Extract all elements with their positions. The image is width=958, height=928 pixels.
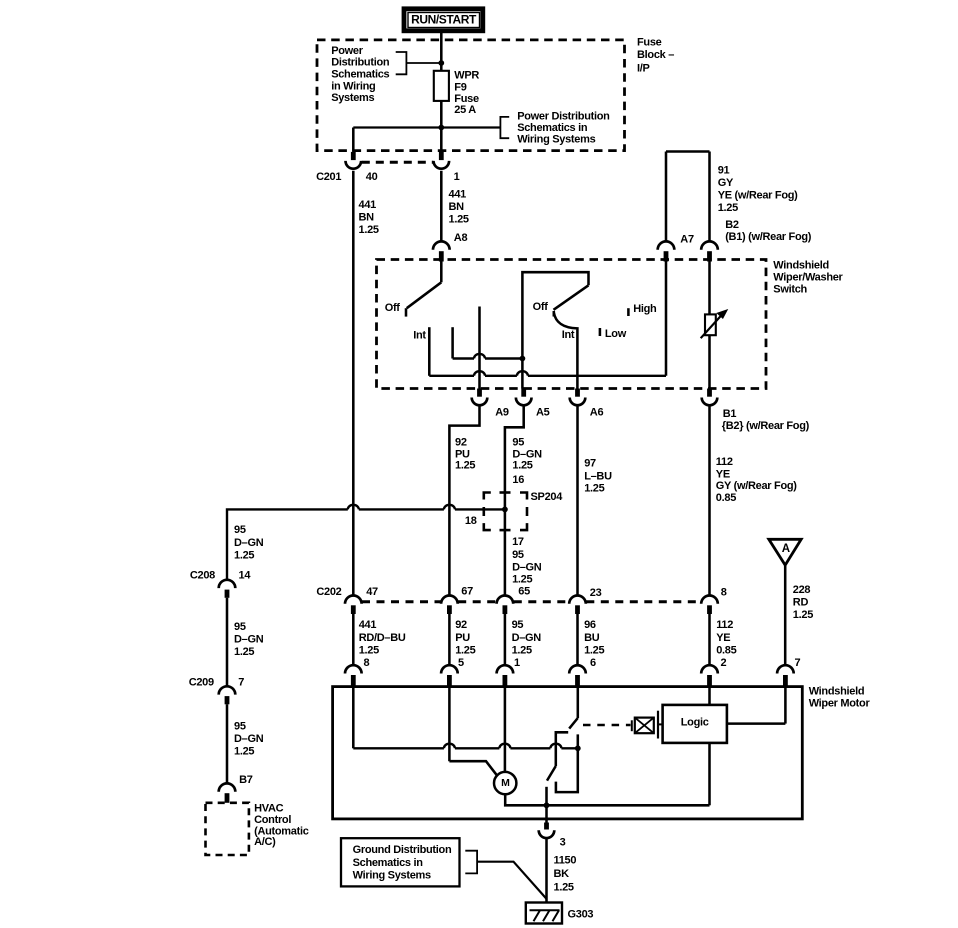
- svg-text:Off: Off: [533, 301, 549, 313]
- svg-text:D–GN: D–GN: [512, 562, 542, 574]
- svg-text:M: M: [501, 777, 510, 789]
- svg-text:1: 1: [454, 171, 460, 183]
- svg-text:1.25: 1.25: [234, 646, 254, 658]
- svg-text:441: 441: [449, 189, 467, 201]
- svg-text:1.25: 1.25: [718, 202, 738, 214]
- svg-text:C209: C209: [189, 677, 214, 689]
- svg-text:Wiring Systems: Wiring Systems: [517, 134, 595, 146]
- svg-text:{B2} (w/Rear Fog): {B2} (w/Rear Fog): [722, 420, 810, 432]
- svg-text:A/C): A/C): [254, 836, 276, 848]
- svg-text:Schematics in: Schematics in: [517, 122, 588, 134]
- svg-text:95: 95: [234, 621, 246, 633]
- svg-text:40: 40: [366, 171, 378, 183]
- svg-text:C201: C201: [316, 171, 341, 183]
- svg-text:Switch: Switch: [773, 283, 807, 295]
- svg-text:0.85: 0.85: [716, 644, 736, 656]
- svg-text:BN: BN: [449, 201, 465, 213]
- svg-text:25 A: 25 A: [454, 104, 476, 116]
- svg-text:17: 17: [512, 536, 524, 548]
- svg-text:BK: BK: [554, 868, 570, 880]
- svg-text:YE (w/Rear Fog): YE (w/Rear Fog): [718, 190, 798, 202]
- svg-text:GY: GY: [718, 177, 734, 189]
- svg-text:65: 65: [518, 585, 530, 597]
- svg-text:0.85: 0.85: [716, 492, 736, 504]
- svg-text:Schematics in: Schematics in: [353, 857, 424, 869]
- svg-text:8: 8: [364, 657, 370, 669]
- svg-text:95: 95: [234, 720, 246, 732]
- svg-text:112: 112: [716, 619, 733, 631]
- svg-text:Off: Off: [385, 302, 401, 314]
- svg-text:WPR: WPR: [454, 70, 479, 82]
- svg-text:6: 6: [590, 657, 596, 669]
- svg-text:1.25: 1.25: [359, 224, 379, 236]
- svg-text:D–GN: D–GN: [234, 733, 264, 745]
- svg-text:7: 7: [795, 657, 801, 669]
- svg-text:Int: Int: [413, 329, 426, 341]
- svg-text:2: 2: [721, 657, 727, 669]
- svg-text:Int: Int: [562, 329, 575, 341]
- svg-text:1.25: 1.25: [234, 549, 254, 561]
- svg-text:1.25: 1.25: [455, 644, 475, 656]
- svg-text:A6: A6: [590, 407, 604, 419]
- svg-text:D–GN: D–GN: [512, 448, 542, 460]
- svg-text:BN: BN: [359, 212, 375, 224]
- svg-text:228: 228: [793, 584, 811, 596]
- svg-text:D–GN: D–GN: [512, 632, 542, 644]
- svg-text:1: 1: [514, 657, 520, 669]
- svg-text:GY (w/Rear Fog): GY (w/Rear Fog): [716, 480, 797, 492]
- svg-text:8: 8: [721, 587, 727, 599]
- svg-text:(B1) (w/Rear Fog): (B1) (w/Rear Fog): [725, 231, 812, 243]
- svg-text:95: 95: [234, 524, 246, 536]
- svg-text:C208: C208: [190, 570, 215, 582]
- svg-text:96: 96: [584, 619, 596, 631]
- svg-text:I/P: I/P: [637, 62, 650, 74]
- svg-text:RD/D–BU: RD/D–BU: [359, 632, 406, 644]
- svg-text:441: 441: [359, 619, 377, 631]
- svg-text:PU: PU: [455, 632, 470, 644]
- svg-text:RUN/START: RUN/START: [411, 12, 477, 26]
- svg-text:95: 95: [512, 619, 524, 631]
- svg-text:23: 23: [590, 587, 602, 599]
- svg-text:7: 7: [238, 677, 244, 689]
- svg-text:Low: Low: [605, 328, 627, 340]
- svg-text:B7: B7: [239, 774, 253, 786]
- svg-text:1.25: 1.25: [449, 214, 469, 226]
- svg-text:Fuse: Fuse: [454, 93, 479, 105]
- svg-text:1.25: 1.25: [584, 482, 604, 494]
- svg-text:1.25: 1.25: [793, 609, 813, 621]
- svg-text:5: 5: [458, 657, 464, 669]
- svg-text:Power: Power: [331, 45, 364, 57]
- svg-text:67: 67: [461, 585, 473, 597]
- svg-text:YE: YE: [716, 468, 730, 480]
- svg-text:Windshield: Windshield: [809, 686, 865, 698]
- svg-text:A8: A8: [454, 232, 468, 244]
- svg-text:92: 92: [455, 436, 467, 448]
- svg-text:Systems: Systems: [331, 92, 374, 104]
- svg-text:47: 47: [366, 586, 378, 598]
- svg-text:Wiring Systems: Wiring Systems: [353, 869, 431, 881]
- svg-text:Ground Distribution: Ground Distribution: [353, 844, 452, 856]
- svg-text:Schematics: Schematics: [331, 69, 389, 81]
- svg-text:97: 97: [584, 458, 596, 470]
- svg-text:B1: B1: [723, 408, 737, 420]
- svg-text:1.25: 1.25: [234, 746, 254, 758]
- svg-text:441: 441: [359, 199, 377, 211]
- svg-text:95: 95: [512, 436, 524, 448]
- svg-text:18: 18: [465, 515, 477, 527]
- svg-text:A7: A7: [680, 234, 694, 246]
- svg-text:1.25: 1.25: [455, 460, 475, 472]
- svg-text:14: 14: [239, 570, 252, 582]
- svg-text:1.25: 1.25: [512, 644, 532, 656]
- svg-text:92: 92: [455, 619, 467, 631]
- svg-text:RD: RD: [793, 596, 809, 608]
- svg-text:91: 91: [718, 164, 730, 176]
- svg-text:1.25: 1.25: [512, 460, 532, 472]
- svg-text:B2: B2: [725, 219, 739, 231]
- svg-text:L–BU: L–BU: [584, 471, 612, 483]
- svg-text:95: 95: [512, 549, 524, 561]
- svg-text:1.25: 1.25: [359, 644, 379, 656]
- svg-text:1150: 1150: [554, 854, 577, 866]
- svg-text:1.25: 1.25: [584, 644, 604, 656]
- svg-text:Fuse: Fuse: [637, 37, 662, 49]
- svg-text:Power Distribution: Power Distribution: [517, 111, 610, 123]
- svg-text:in Wiring: in Wiring: [331, 80, 375, 92]
- svg-text:Windshield: Windshield: [773, 260, 829, 272]
- svg-text:Logic: Logic: [681, 716, 709, 728]
- svg-text:YE: YE: [716, 632, 730, 644]
- svg-text:D–GN: D–GN: [234, 634, 264, 646]
- svg-text:HVAC: HVAC: [254, 803, 284, 815]
- svg-text:SP204: SP204: [531, 491, 564, 503]
- svg-text:High: High: [633, 303, 657, 315]
- svg-text:Block –: Block –: [637, 49, 674, 61]
- svg-text:Wiper Motor: Wiper Motor: [809, 698, 871, 710]
- svg-text:3: 3: [560, 836, 566, 848]
- svg-text:1.25: 1.25: [512, 573, 532, 585]
- svg-text:G303: G303: [568, 908, 594, 920]
- svg-text:1.25: 1.25: [554, 881, 574, 893]
- svg-text:C202: C202: [316, 586, 341, 598]
- svg-text:BU: BU: [584, 632, 600, 644]
- svg-text:Wiper/Washer: Wiper/Washer: [773, 272, 843, 284]
- svg-text:16: 16: [512, 474, 524, 486]
- svg-text:F9: F9: [454, 81, 466, 93]
- svg-text:A5: A5: [536, 407, 550, 419]
- svg-text:PU: PU: [455, 448, 470, 460]
- svg-text:A9: A9: [495, 407, 509, 419]
- svg-text:D–GN: D–GN: [234, 537, 264, 549]
- svg-text:112: 112: [716, 456, 733, 468]
- svg-text:Distribution: Distribution: [331, 57, 390, 69]
- svg-text:A: A: [782, 543, 790, 555]
